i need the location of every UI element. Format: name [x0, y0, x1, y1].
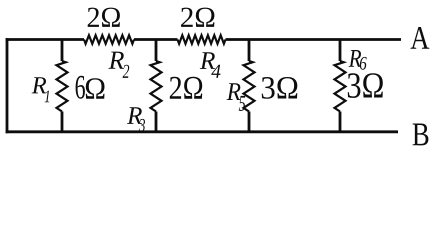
wire: top rail to terminal A — [6, 38, 401, 41]
value 3Ω of R5 — [262, 77, 275, 99]
label R1 letter R — [32, 77, 47, 93]
wire: R6 branch leads — [339, 40, 342, 132]
value 6Ω of R1 ohm sign — [86, 78, 105, 99]
value 2Ω of R2 — [88, 8, 99, 27]
wire: R5 branch leads — [248, 40, 251, 132]
value 6Ω of R1 digit 6 — [76, 76, 85, 99]
label R5 letter R — [227, 83, 241, 100]
value 3Ω of R6 — [348, 73, 361, 98]
value 2Ω of R3 — [170, 77, 181, 99]
label R4 subscript 4 — [211, 65, 220, 78]
terminal label A — [411, 27, 430, 49]
resistor R2 (2Ω) zigzag — [84, 35, 134, 44]
label R3 subscript 3 — [139, 119, 145, 132]
label R2 letter R — [109, 52, 124, 69]
label R6 subscript 6 — [360, 57, 367, 70]
label R2 subscript 2 — [123, 65, 130, 78]
wire: bottom rail to terminal B — [6, 130, 398, 133]
resistor R3 zigzag — [151, 61, 162, 112]
label R4 letter R — [200, 52, 215, 69]
label R5 subscript 5 — [239, 96, 245, 111]
terminal label B — [413, 123, 429, 145]
resistor R4 (2Ω) zigzag — [178, 35, 226, 44]
value 2Ω of R4 — [181, 8, 193, 27]
wire: left side connecting rails — [6, 38, 9, 133]
label R3 letter R — [127, 107, 142, 124]
resistor R6 zigzag — [335, 61, 346, 112]
wire: R1 branch leads — [61, 40, 64, 132]
resistor R5 zigzag — [244, 61, 255, 112]
label R6 letter R — [349, 50, 362, 67]
wire: R3 branch leads — [155, 40, 158, 132]
resistor R1 zigzag — [57, 61, 68, 112]
label R1 subscript 1 — [45, 91, 50, 103]
